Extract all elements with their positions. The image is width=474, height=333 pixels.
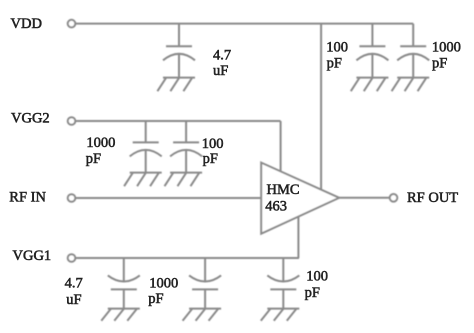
svg-text:RF OUT: RF OUT [407, 190, 458, 206]
svg-text:HMC: HMC [267, 182, 300, 198]
svg-text:VDD: VDD [11, 16, 42, 32]
svg-text:4.7: 4.7 [65, 275, 83, 291]
svg-text:1000: 1000 [149, 275, 178, 291]
svg-text:pF: pF [203, 151, 218, 167]
svg-text:pF: pF [327, 55, 342, 71]
svg-text:1000: 1000 [86, 135, 115, 151]
svg-text:4.7: 4.7 [213, 47, 231, 63]
svg-text:pF: pF [148, 291, 163, 307]
svg-text:100: 100 [326, 40, 348, 56]
svg-text:pF: pF [305, 285, 320, 301]
svg-text:100: 100 [306, 269, 328, 285]
svg-text:uF: uF [213, 63, 228, 79]
svg-text:uF: uF [66, 292, 81, 308]
svg-text:VGG2: VGG2 [11, 111, 50, 127]
svg-text:pF: pF [86, 151, 101, 167]
svg-text:RF IN: RF IN [9, 190, 46, 206]
svg-text:pF: pF [432, 56, 447, 72]
svg-text:463: 463 [265, 199, 287, 215]
svg-text:VGG1: VGG1 [13, 248, 52, 264]
svg-text:1000: 1000 [432, 40, 461, 56]
svg-text:100: 100 [202, 136, 224, 152]
